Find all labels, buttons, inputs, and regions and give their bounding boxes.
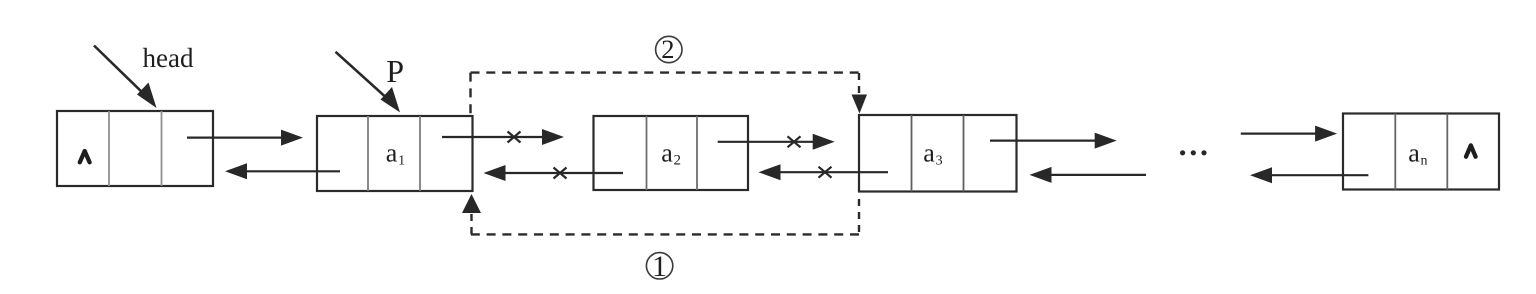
head node null mark xyxy=(80,151,90,162)
dashed region right edge lower xyxy=(858,199,860,234)
wire an prior arrow xyxy=(1250,167,1368,183)
head label xyxy=(143,43,194,73)
wire a2 prior broken arrow xyxy=(484,165,624,181)
node a2 box xyxy=(594,116,749,190)
node an null mark xyxy=(1466,145,1476,156)
ellipsis dots xyxy=(1180,150,1207,155)
node a2 label xyxy=(661,138,681,168)
P pointer arrow xyxy=(336,52,401,113)
wire a1 next broken arrow xyxy=(442,129,564,145)
wire a3 prior broken arrow xyxy=(759,164,889,180)
node a3 box xyxy=(859,115,1017,192)
dashed region left edge upper xyxy=(469,73,471,116)
step 2 circled label xyxy=(656,34,682,64)
svg-text:P: P xyxy=(386,53,404,89)
svg-text:1: 1 xyxy=(652,250,667,283)
step 2 down arrow xyxy=(852,73,868,114)
step 1 circled label xyxy=(646,250,672,283)
wire a2 next broken arrow xyxy=(718,134,835,150)
node an label xyxy=(1408,138,1427,168)
dashed region bottom edge xyxy=(471,233,859,235)
wire into an next arrow xyxy=(1241,126,1337,142)
head pointer arrow xyxy=(94,46,157,109)
step 1 up arrow xyxy=(462,194,481,234)
head node box xyxy=(57,111,213,186)
wire into a3 prior arrow xyxy=(1030,167,1147,183)
wire a3 next arrow xyxy=(990,133,1117,149)
P label xyxy=(386,53,404,89)
node an box xyxy=(1343,114,1499,190)
node a1 label xyxy=(386,138,405,168)
svg-text:2: 2 xyxy=(661,34,674,64)
wire head next arrow xyxy=(187,130,303,146)
svg-text:head: head xyxy=(143,43,194,73)
node a3 label xyxy=(923,138,942,168)
wire a1 prior arrow xyxy=(225,163,340,179)
dashed region top edge xyxy=(471,71,860,73)
node a1 box xyxy=(317,116,473,191)
